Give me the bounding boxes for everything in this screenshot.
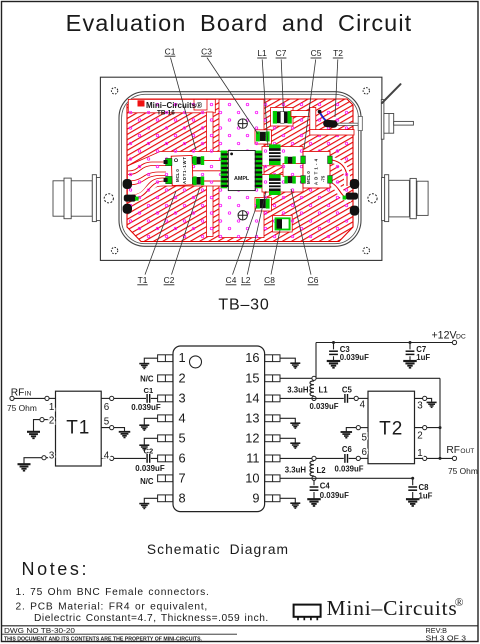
- blue jumper wire: [320, 112, 329, 123]
- svg-text:0.039uF: 0.039uF: [320, 491, 349, 500]
- capacitor C8: [406, 478, 433, 506]
- PCB copper (red hatch): [127, 99, 353, 242]
- svg-text:C6: C6: [342, 445, 353, 454]
- +12V drop wire: [315, 343, 317, 379]
- svg-text:Dielectric Constant=4.7, Thick: Dielectric Constant=4.7, Thickness=.059 …: [34, 613, 269, 624]
- svg-text:DWG NO TB-30-20: DWG NO TB-30-20: [4, 628, 75, 635]
- svg-text:0.039uF: 0.039uF: [135, 464, 165, 473]
- top-right terminal bar: [381, 100, 413, 140]
- wire pin11 / C6 net: [280, 457, 356, 459]
- svg-text:C4: C4: [320, 482, 331, 491]
- wire pin8 to ground: [144, 498, 157, 503]
- plate screw hole bottom-left: [111, 247, 117, 253]
- svg-text:T2: T2: [379, 419, 403, 440]
- svg-text:RF: RF: [446, 445, 460, 456]
- T1 pin3 to ground: [42, 456, 46, 460]
- feed-through rod: [338, 123, 358, 125]
- svg-text:TB–30: TB–30: [218, 297, 269, 314]
- channel horizontal top-right: [310, 130, 354, 135]
- transformer T2 box: [368, 391, 415, 464]
- svg-text:Mini–Circuits: Mini–Circuits: [327, 596, 458, 620]
- wire pin5 to ground: [144, 438, 157, 444]
- Mini-Circuits logo icon: [294, 605, 321, 621]
- transformer T2 block: [301, 151, 332, 188]
- T1 pin2 to ground: [40, 418, 44, 422]
- svg-text:2: 2: [417, 430, 422, 441]
- svg-text:C2: C2: [144, 446, 154, 455]
- board reference labels top: [165, 46, 344, 150]
- wire pin6 / C2 net: [114, 457, 158, 459]
- cover lid outline: [119, 92, 361, 247]
- capacitor C7: [409, 343, 411, 361]
- island C7 top: [271, 108, 293, 127]
- BNC left solder joints: [123, 179, 137, 214]
- svg-text:Notes:: Notes:: [22, 559, 90, 579]
- svg-text:RF: RF: [11, 388, 25, 399]
- label T2: [333, 48, 343, 117]
- svg-text:7: 7: [179, 470, 186, 485]
- channel vertical top-right: [310, 107, 316, 131]
- channel row1 right: [262, 147, 303, 166]
- +12V terminal circle: [452, 340, 456, 344]
- wire RFin to T1 pin1: [14, 397, 45, 399]
- svg-text:Schematic Diagram: Schematic Diagram: [147, 542, 289, 557]
- label C5: [304, 48, 322, 149]
- cap row2 right: [284, 176, 295, 184]
- ground pin1: [139, 364, 149, 369]
- capacitor C4: [307, 480, 349, 506]
- jumper connector body: [323, 119, 338, 128]
- screw top: [238, 119, 247, 128]
- label T1: [137, 191, 176, 285]
- ground pin9: [290, 503, 300, 508]
- plate screw hole top-right: [363, 88, 369, 94]
- svg-text:+12V: +12V: [432, 330, 458, 342]
- svg-text:1: 1: [179, 350, 186, 365]
- svg-text:T1: T1: [66, 418, 90, 439]
- svg-text:3: 3: [179, 390, 186, 405]
- svg-text:0.039uF: 0.039uF: [335, 465, 364, 474]
- inductor L2: [310, 461, 314, 476]
- wire pin12 to ground: [280, 438, 295, 442]
- svg-text:®: ®: [455, 597, 464, 609]
- svg-text:OUT: OUT: [460, 448, 474, 455]
- trace left 1: [128, 162, 166, 175]
- svg-text:C5: C5: [342, 386, 353, 395]
- plate screw hole top-left: [111, 88, 117, 94]
- svg-text:ADT1-1WT: ADT1-1WT: [182, 157, 187, 184]
- svg-text:-75: -75: [321, 175, 326, 182]
- L1 node circles: [312, 376, 316, 380]
- svg-text:9: 9: [252, 490, 259, 505]
- T1 pin5 to ground: [110, 426, 114, 430]
- pin boxes right: [265, 355, 280, 362]
- svg-text:3: 3: [49, 450, 55, 461]
- wire pin9 to ground: [280, 498, 295, 502]
- label C8: [264, 230, 280, 285]
- svg-text:C8: C8: [419, 483, 430, 492]
- junction C3: [332, 341, 335, 344]
- magenta via markers: [127, 99, 353, 242]
- cap top-center on board: [256, 131, 270, 141]
- svg-text:MCL 0: MCL 0: [175, 169, 180, 182]
- label C7: [276, 48, 287, 112]
- RFin terminal: [10, 396, 14, 400]
- ground pin12: [290, 443, 300, 448]
- capacitor C6: [345, 454, 348, 463]
- svg-text:3.3uH: 3.3uH: [285, 466, 307, 475]
- T1 pin4: [110, 456, 114, 460]
- silkscreen band: [128, 99, 215, 112]
- +12V rail: [316, 342, 452, 344]
- svg-text:13: 13: [245, 410, 259, 425]
- plate: [100, 77, 382, 260]
- svg-text:0.039uF: 0.039uF: [131, 403, 161, 412]
- transformer T1 block: [164, 155, 196, 185]
- svg-text:AMPL: AMPL: [234, 176, 250, 182]
- svg-text:1uF: 1uF: [419, 492, 433, 501]
- svg-text:11: 11: [246, 450, 259, 465]
- capacitor C2 on board: [193, 176, 204, 185]
- svg-text:C1: C1: [165, 46, 176, 56]
- plate side hole right: [368, 194, 377, 203]
- ground pin16: [290, 363, 300, 368]
- capacitor C1: [147, 394, 150, 403]
- pin numbers right: [245, 350, 259, 505]
- wire pin13 to ground: [280, 418, 295, 422]
- capacitor C3: [333, 343, 335, 361]
- T2 pin3 to ground: [423, 396, 427, 400]
- capacitor C1 on board: [193, 156, 204, 165]
- svg-text:Mini–Circuits®: Mini–Circuits®: [146, 101, 202, 110]
- svg-text:75 Ohm: 75 Ohm: [448, 466, 478, 476]
- inductor L1: [310, 381, 314, 396]
- ground pin13: [290, 423, 300, 428]
- T1 pin6: [110, 396, 114, 400]
- capacitor C5: [345, 394, 348, 403]
- svg-text:5: 5: [104, 416, 110, 427]
- channel row2 right: [262, 175, 303, 193]
- svg-text:T1: T1: [138, 275, 148, 285]
- wire pin14 / C5 net: [280, 397, 354, 399]
- island bottom-center cap: [255, 198, 271, 212]
- ground pin8: [139, 504, 149, 509]
- trace left 2: [128, 172, 166, 185]
- svg-text:1: 1: [417, 448, 422, 459]
- plate side hole left: [104, 194, 113, 203]
- pin 1 index circle: [190, 356, 202, 368]
- svg-text:15: 15: [245, 370, 259, 385]
- choke row1 right (wound): [269, 144, 281, 165]
- wire pin16 to ground: [280, 358, 295, 362]
- svg-text:16: 16: [245, 350, 259, 365]
- svg-text:THIS DOCUMENT AND ITS CONTENTS: THIS DOCUMENT AND ITS CONTENTS ARE THE P…: [4, 637, 202, 643]
- wire pin10 long: [280, 477, 413, 479]
- plate screw hole bottom-right: [363, 247, 369, 253]
- svg-text:N/C: N/C: [140, 374, 154, 383]
- transformer T1 box: [56, 391, 102, 466]
- svg-text:2. PCB Material: FR4 or equiva: 2. PCB Material: FR4 or equivalent,: [16, 601, 209, 612]
- capacitor C2: [147, 454, 150, 463]
- BNC right solder joints: [346, 179, 360, 216]
- svg-text:C4: C4: [226, 275, 237, 285]
- svg-text:L1: L1: [257, 48, 267, 58]
- svg-text:C1: C1: [144, 386, 154, 395]
- label L1: [257, 48, 268, 147]
- wire pin1 to ground: [144, 358, 157, 363]
- svg-text:6: 6: [179, 450, 186, 465]
- cap bottom-center on board: [256, 199, 270, 209]
- right trace channel to BNC: [332, 183, 351, 198]
- T2 pin4: [354, 396, 358, 400]
- svg-text:5: 5: [362, 433, 368, 444]
- svg-text:N/C: N/C: [140, 477, 154, 486]
- T2 pin6: [356, 456, 360, 460]
- T1 pin1: [45, 396, 49, 400]
- wire pin15 rail (long to right): [280, 377, 440, 379]
- channel vertical thin: [207, 112, 214, 237]
- traces to amplifier: [193, 161, 221, 181]
- trace left 3: [132, 178, 166, 198]
- island C8 bottom: [273, 215, 293, 232]
- right trace upper: [332, 160, 347, 186]
- island top-left of channel: [194, 99, 207, 110]
- screw bottom: [238, 211, 247, 220]
- silkscreen logo icon: [138, 100, 145, 106]
- channel to C7 island upper right: [291, 111, 312, 117]
- svg-text:REV:B: REV:B: [426, 628, 448, 635]
- svg-text:6: 6: [362, 447, 368, 458]
- L2 node circles: [312, 456, 316, 460]
- feed-through wall block: [358, 116, 362, 130]
- channel left pocket: [127, 152, 228, 199]
- right trace: [332, 183, 351, 198]
- label C6: [291, 189, 319, 285]
- pin numbers left: [179, 350, 186, 505]
- right feed vertical wire: [439, 378, 441, 458]
- svg-text:2: 2: [49, 416, 54, 427]
- svg-text:IN: IN: [25, 391, 32, 398]
- RFout terminal: [452, 456, 456, 460]
- footer sub-rule: [2, 633, 238, 635]
- svg-text:0.039uF: 0.039uF: [309, 402, 338, 411]
- ground pin4: [139, 425, 149, 430]
- top-right diagonal rod: [382, 84, 401, 103]
- T2 pin2: [423, 426, 427, 430]
- svg-text:1: 1: [49, 402, 54, 413]
- svg-text:1. 75 Ohm BNC Female connector: 1. 75 Ohm BNC Female connectors.: [16, 587, 210, 598]
- svg-text:1uF: 1uF: [416, 353, 430, 362]
- svg-text:3.3uH: 3.3uH: [287, 385, 309, 394]
- channel mid band right: [283, 164, 303, 177]
- svg-text:75 Ohm: 75 Ohm: [7, 403, 37, 413]
- cap C8 on board: [275, 217, 291, 230]
- cap C7 on board: [273, 111, 292, 124]
- svg-text:Evaluation Board and Circuit: Evaluation Board and Circuit: [66, 10, 413, 36]
- T2 pin1 / RFout: [423, 456, 427, 460]
- svg-text:L2: L2: [241, 275, 251, 285]
- label C1: [165, 46, 196, 150]
- channel central column: [219, 99, 264, 237]
- svg-text:C3: C3: [201, 46, 212, 56]
- svg-text:MCL 0: MCL 0: [306, 171, 311, 184]
- label C3: [201, 46, 258, 134]
- svg-text:SH 3 OF 3: SH 3 OF 3: [426, 635, 467, 642]
- junction RFout: [439, 457, 442, 460]
- ground pin5: [139, 445, 149, 450]
- cover lid inner wall: [122, 94, 359, 243]
- AMPL chip: [221, 151, 263, 191]
- svg-text:6: 6: [104, 402, 110, 413]
- svg-text:4: 4: [360, 399, 366, 410]
- wire pin3 / C1 net: [114, 397, 158, 399]
- svg-text:C5: C5: [311, 48, 322, 58]
- BNC left body: [53, 175, 100, 222]
- pin boxes left: [158, 355, 173, 362]
- svg-text:5: 5: [179, 430, 186, 445]
- svg-text:14: 14: [245, 390, 259, 405]
- svg-text:L1: L1: [319, 385, 329, 394]
- svg-text:C2: C2: [164, 275, 175, 285]
- svg-text:DC: DC: [456, 334, 466, 341]
- op-amp U1 body: [173, 346, 265, 512]
- svg-text:3: 3: [417, 400, 423, 411]
- svg-text:C6: C6: [308, 275, 319, 285]
- wire pin4 to ground: [144, 418, 157, 424]
- svg-text:C7: C7: [276, 48, 287, 58]
- cap row1 right: [284, 156, 295, 164]
- label C4: [226, 205, 257, 285]
- left trace channel to BNC: [132, 183, 156, 198]
- T2 pin5 to ground: [356, 426, 360, 430]
- svg-text:0.039uF: 0.039uF: [340, 353, 369, 362]
- left trace: [132, 183, 156, 198]
- choke row2 right (wound): [269, 174, 281, 195]
- svg-text:8: 8: [179, 490, 186, 505]
- junction T2 pin2: [439, 426, 442, 429]
- svg-text:12: 12: [245, 430, 259, 445]
- svg-text:10: 10: [245, 470, 259, 485]
- label L2: [241, 191, 266, 285]
- footer rule: [2, 625, 479, 627]
- junction C7: [409, 341, 412, 344]
- svg-text:4: 4: [104, 450, 110, 461]
- label C2: [164, 187, 200, 285]
- svg-text:C8: C8: [264, 275, 275, 285]
- svg-text:TB-16: TB-16: [157, 110, 175, 117]
- svg-text:T2: T2: [333, 48, 343, 58]
- junction C8: [411, 477, 414, 480]
- svg-text:4: 4: [179, 410, 186, 425]
- svg-text:L2: L2: [317, 466, 327, 475]
- board reference labels bottom: [137, 187, 318, 285]
- svg-text:2: 2: [179, 370, 186, 385]
- island top-center cap: [255, 130, 271, 144]
- BNC right body: [382, 175, 429, 222]
